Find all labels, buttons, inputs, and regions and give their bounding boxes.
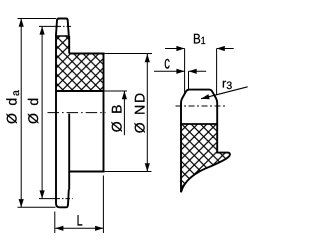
svg-text:c: c	[164, 53, 170, 73]
svg-text:3: 3	[226, 80, 232, 92]
svg-text:L: L	[77, 213, 83, 230]
svg-text:Ø d: Ø d	[25, 96, 41, 124]
svg-text:Ø ND: Ø ND	[132, 91, 148, 133]
svg-text:Ø B: Ø B	[109, 103, 125, 133]
